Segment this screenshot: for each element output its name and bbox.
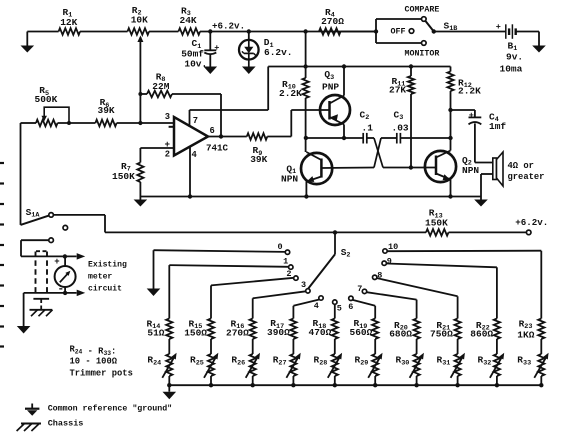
svg-text:27K: 27K <box>389 85 406 96</box>
svg-text:10K: 10K <box>131 15 148 26</box>
svg-text:24K: 24K <box>180 15 197 26</box>
svg-text:3: 3 <box>301 280 306 290</box>
svg-text:6: 6 <box>210 126 215 136</box>
svg-text:5: 5 <box>337 304 342 314</box>
svg-text:1mf: 1mf <box>489 121 506 132</box>
svg-text:4: 4 <box>314 301 319 311</box>
svg-text:560Ω: 560Ω <box>350 327 373 338</box>
svg-text:+6.2v.: +6.2v. <box>515 217 548 228</box>
svg-text:2.2K: 2.2K <box>279 88 302 99</box>
svg-text:4: 4 <box>192 150 198 160</box>
svg-text:22M: 22M <box>152 81 169 92</box>
svg-text:10 - 100Ω: 10 - 100Ω <box>70 357 118 367</box>
svg-text:7: 7 <box>193 116 198 126</box>
svg-text:7: 7 <box>357 284 362 294</box>
svg-text:+: + <box>496 22 501 32</box>
svg-text:OFF: OFF <box>391 27 406 37</box>
svg-text:0: 0 <box>278 242 283 252</box>
svg-text:COMPARE: COMPARE <box>405 6 440 15</box>
svg-text:Common reference "ground": Common reference "ground" <box>48 404 172 414</box>
svg-text:10v.: 10v. <box>184 58 207 69</box>
svg-text:270Ω: 270Ω <box>226 327 249 338</box>
svg-text:3: 3 <box>165 112 170 122</box>
svg-text:circuit: circuit <box>88 285 122 294</box>
svg-text:-: - <box>58 284 65 296</box>
svg-text:12K: 12K <box>60 17 77 28</box>
svg-text:750Ω: 750Ω <box>430 328 453 339</box>
svg-text:390Ω: 390Ω <box>267 327 290 338</box>
svg-text:10: 10 <box>388 242 398 252</box>
svg-text:270Ω: 270Ω <box>321 16 344 27</box>
svg-text:+6.2v.: +6.2v. <box>212 20 245 31</box>
svg-text:860Ω: 860Ω <box>470 328 493 339</box>
svg-text:9: 9 <box>387 256 392 266</box>
svg-text:meter: meter <box>88 273 112 282</box>
svg-text:NPN: NPN <box>462 165 479 176</box>
svg-text:150K: 150K <box>425 218 448 229</box>
svg-text:Chassis: Chassis <box>48 419 84 429</box>
svg-text:Existing: Existing <box>88 261 127 270</box>
svg-text:6.2v.: 6.2v. <box>264 47 293 58</box>
svg-text:680Ω: 680Ω <box>389 328 412 339</box>
svg-text:10ma: 10ma <box>500 63 523 74</box>
svg-text:NPN: NPN <box>281 174 298 185</box>
svg-text:+: + <box>165 139 171 150</box>
svg-text:+: + <box>469 110 474 120</box>
svg-text:PNP: PNP <box>322 81 339 92</box>
svg-text:470Ω: 470Ω <box>309 327 332 338</box>
svg-text:6: 6 <box>348 302 353 312</box>
svg-text:4Ω or: 4Ω or <box>508 161 534 171</box>
svg-text:150Ω: 150Ω <box>184 327 207 338</box>
svg-text:9v.: 9v. <box>506 51 523 62</box>
svg-text:Trimmer pots: Trimmer pots <box>70 368 133 378</box>
svg-text:2.2K: 2.2K <box>458 85 481 96</box>
svg-text:39K: 39K <box>250 154 267 165</box>
svg-text:500K: 500K <box>35 94 58 105</box>
svg-text:1KΩ: 1KΩ <box>517 329 534 340</box>
svg-text:1: 1 <box>283 257 288 267</box>
svg-text:greater: greater <box>508 172 545 182</box>
svg-text:2: 2 <box>165 149 170 159</box>
svg-text:741C: 741C <box>206 142 229 153</box>
svg-text:2: 2 <box>286 269 291 279</box>
svg-text:8: 8 <box>377 271 382 281</box>
svg-text:.1: .1 <box>362 123 374 134</box>
svg-text:150K: 150K <box>112 171 135 182</box>
svg-text:MONITOR: MONITOR <box>405 50 440 59</box>
svg-text:+: + <box>54 257 59 267</box>
svg-text:+: + <box>214 43 219 53</box>
svg-text:.03: .03 <box>392 123 409 134</box>
svg-text:39K: 39K <box>98 105 115 116</box>
svg-text:51Ω: 51Ω <box>147 327 164 338</box>
